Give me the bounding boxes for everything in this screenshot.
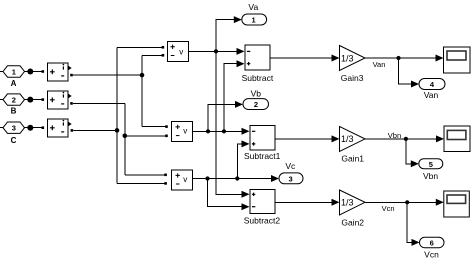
wire Subtract2 output to Gain2 (275, 201, 333, 203)
port square VM_C left (42, 126, 45, 129)
gain2 triangle (340, 190, 366, 215)
port square V2 minus (164, 182, 167, 185)
outport 6 Vcn oval (420, 237, 445, 248)
svg-text:v: v (183, 175, 187, 184)
wire node B to block VM_B (33, 99, 42, 101)
wire branch Va: vertical from V output up to outport Va (216, 20, 235, 52)
minus sign V2 (176, 183, 180, 185)
scope2 screen (447, 130, 466, 139)
plus sign Subtract1 bottom (252, 142, 255, 145)
wire branch signal Vb up to Subtract plus input (224, 64, 238, 132)
wire Gain2 output Vcn to Scope3 (365, 201, 437, 203)
wire bus C bottom to V2 minus input (117, 182, 164, 184)
svg-text:Vcn: Vcn (382, 204, 395, 213)
wire branch signal Vc up to Subtract1 plus input (237, 144, 242, 179)
svg-text:Subtract1: Subtract1 (244, 151, 281, 161)
arrowhead into outport 4 (411, 81, 419, 88)
connection port 2 B (hexagon) (3, 94, 25, 105)
junction dot Vcn branch (405, 200, 409, 204)
outport 4 Van oval (419, 79, 445, 90)
wire bus B vertical (124, 103, 126, 174)
scope3 body (444, 191, 470, 217)
wire node A to block VM_A (33, 71, 42, 73)
junction dot Vbn branch (404, 137, 408, 141)
svg-text:A: A (11, 79, 17, 88)
arrowhead into Subtract2 minus input (242, 203, 250, 210)
svg-text:5: 5 (429, 160, 433, 169)
unconnected output arrow VM_B (68, 94, 71, 99)
node A dot (27, 69, 33, 75)
svg-text:1/3: 1/3 (341, 198, 354, 208)
minus sign V (171, 55, 175, 57)
svg-text:v: v (179, 48, 183, 57)
svg-text:2: 2 (12, 96, 16, 105)
subtract1 block U2 body (250, 126, 275, 151)
wire port B to node B (25, 99, 29, 101)
arrowhead into outport Va (234, 16, 242, 23)
wire port A to node A (25, 71, 29, 73)
i glyph VM_A (62, 66, 64, 69)
junction dot Vc right branch (235, 176, 239, 180)
wire Gain1 output Vbn to Scope2 (365, 138, 437, 140)
plus sign VM_A (50, 69, 55, 74)
port square VM_B left (42, 98, 45, 101)
outport 1 Va oval (242, 14, 267, 25)
junction dot Va branch (214, 49, 218, 53)
port square VM_B right (70, 102, 73, 105)
svg-text:Van: Van (424, 90, 439, 100)
svg-text:1: 1 (12, 67, 16, 76)
port square VM_A right (70, 74, 73, 77)
svg-text:Vc: Vc (285, 161, 296, 171)
node C dot (27, 125, 33, 131)
junction dot Vb to subtract branch (222, 129, 226, 133)
svg-text:Vbn: Vbn (423, 171, 438, 181)
wire branch Van down to outport 4 (399, 58, 413, 84)
unconnected output arrow VM_C (68, 122, 71, 127)
arrowhead into outport 5 (411, 160, 419, 167)
arrowhead into Scope2 (436, 135, 444, 142)
svg-text:6: 6 (430, 239, 434, 248)
arrowhead into outport Vb (235, 101, 243, 108)
arrowhead into Scope1 (436, 55, 444, 62)
svg-text:3: 3 (289, 174, 293, 183)
subtract block U1 body (245, 45, 270, 70)
i dot VM_A (63, 64, 65, 66)
junction dot Vb up branch (206, 129, 210, 133)
block VM_C body (48, 119, 69, 137)
port square V plus (162, 46, 165, 49)
svg-text:Va: Va (248, 2, 258, 12)
block VM_B body (48, 91, 69, 109)
wire bus A vertical (141, 55, 143, 126)
plus sign VM_B (50, 97, 55, 102)
connection port 3 C (hexagon) (3, 122, 25, 133)
svg-text:B: B (11, 107, 17, 116)
wire Subtract1 output to Gain1 (275, 138, 333, 140)
outport 3 Vc oval (279, 173, 303, 184)
svg-text:1/3: 1/3 (341, 53, 354, 63)
wire branch Vcn down to outport 6 (407, 202, 412, 242)
connection port 1 A (hexagon) (3, 66, 25, 77)
voltage measurement V2 body (172, 170, 193, 190)
svg-text:C: C (11, 136, 17, 145)
minus sign V1 (176, 135, 180, 137)
wire V output to Subtract minus input (189, 50, 238, 52)
i glyph VM_B (62, 94, 64, 97)
arrowhead into Subtract1 plus input (242, 140, 250, 147)
minus sign Subtract2 bottom (252, 206, 255, 208)
wire branch Vb: from V1 output up to outport Vb (208, 104, 236, 131)
wire bus B branch to V1 minus input (125, 135, 166, 137)
svg-text:v: v (183, 127, 187, 136)
minus sign Subtract1 top (252, 130, 255, 132)
wire bus A bottom to V1 plus input (142, 126, 165, 128)
wire VM_B output to bus B (73, 102, 125, 104)
arrowhead into Scope3 (436, 199, 444, 206)
arrowhead into Gain3 (332, 55, 340, 62)
svg-text:Vcn: Vcn (424, 249, 439, 259)
arrowhead into Gain2 (332, 199, 340, 206)
svg-text:Gain3: Gain3 (341, 73, 364, 83)
wire node C to block VM_C (33, 127, 42, 129)
scope1 body (444, 47, 471, 73)
wire Gain3 output Van to Scope1 (365, 57, 437, 59)
i dot VM_B (63, 92, 65, 94)
plus sign Subtract bottom (247, 62, 250, 65)
wire branch signal Vc down to Subtract2 minus input (208, 179, 243, 207)
plus sign V2 (176, 173, 180, 177)
svg-text:1/3: 1/3 (341, 134, 354, 144)
gain3 triangle (340, 46, 366, 71)
arrowhead into Subtract minus input (237, 48, 245, 55)
junction dot bus C (115, 128, 120, 133)
scope2 body (444, 126, 470, 152)
block VM_A body (48, 63, 69, 81)
subtract2 block U3 body (250, 190, 275, 214)
minus sign VM_C (61, 131, 64, 133)
wire VM_A output to bus A (73, 74, 142, 76)
svg-text:Vbn: Vbn (388, 131, 401, 140)
wire bus C vertical (116, 47, 118, 183)
port square V minus (162, 54, 165, 57)
plus sign VM_C (50, 125, 55, 130)
wire bus A top to V plus... no: to V minus input (142, 54, 162, 56)
port square V1 minus (165, 135, 168, 138)
svg-text:Vb: Vb (251, 88, 262, 98)
port square V1 plus (165, 125, 168, 128)
wire Subtract output to Gain3 (270, 57, 333, 59)
minus sign VM_B (61, 103, 64, 105)
arrowhead into outport 6 (412, 239, 420, 246)
svg-text:2: 2 (254, 100, 258, 109)
gain1 triangle (340, 127, 366, 152)
svg-text:Van: Van (373, 60, 386, 69)
node B dot (27, 97, 33, 103)
junction dot bus B (123, 134, 128, 139)
minus sign VM_A (61, 75, 64, 77)
port square VM_A left (42, 70, 45, 73)
wire V1 output to Subtract1 minus input (193, 130, 243, 132)
svg-text:Subtract: Subtract (242, 73, 274, 83)
plus sign Subtract2 top (252, 193, 255, 196)
arrowhead into Gain1 (332, 135, 340, 142)
plus sign V (170, 45, 174, 49)
arrowhead into Subtract2 plus input (242, 191, 250, 198)
outport 2 Vb oval (243, 99, 269, 110)
wire stub into port C (0, 127, 3, 129)
minus sign Subtract top (247, 50, 250, 52)
wire stub into port A (0, 71, 3, 73)
scope3 screen (447, 195, 466, 203)
outport 5 Vbn oval (419, 159, 443, 169)
junction dot Van branch (396, 56, 400, 60)
port square V2 plus (164, 174, 167, 177)
port square VM_C right (71, 129, 74, 132)
wire VM_C output to bus C (73, 129, 117, 131)
scope1 screen (447, 51, 466, 60)
voltage measurement V body (168, 42, 189, 62)
arrowhead into outport Vc (271, 175, 279, 182)
svg-text:1: 1 (252, 16, 256, 25)
wire V2 output to outport Vc (193, 178, 273, 180)
wire branch Vbn down to outport 5 (406, 139, 412, 164)
i dot VM_C (63, 120, 65, 122)
svg-text:Gain2: Gain2 (341, 218, 364, 228)
arrowhead into Subtract plus input (237, 60, 245, 67)
wire bus B bottom to V2 plus input (125, 174, 165, 176)
voltage measurement V1 body (172, 122, 193, 142)
arrowhead into Subtract1 minus input (242, 128, 250, 135)
junction dot bus A (140, 73, 145, 78)
junction dot Vc left branch (205, 176, 209, 180)
plus sign V1 (176, 125, 180, 129)
svg-text:Subtract2: Subtract2 (244, 216, 281, 226)
wire stub into port B (0, 99, 3, 101)
i glyph VM_C (62, 122, 64, 125)
unconnected output arrow VM_A (68, 66, 71, 71)
wire port C to node C (25, 127, 29, 129)
svg-text:3: 3 (12, 124, 16, 133)
svg-text:Gain1: Gain1 (341, 154, 364, 164)
wire branch signal Va down to Subtract2 first input (216, 51, 243, 194)
wire bus C top to V plus input (117, 46, 162, 48)
